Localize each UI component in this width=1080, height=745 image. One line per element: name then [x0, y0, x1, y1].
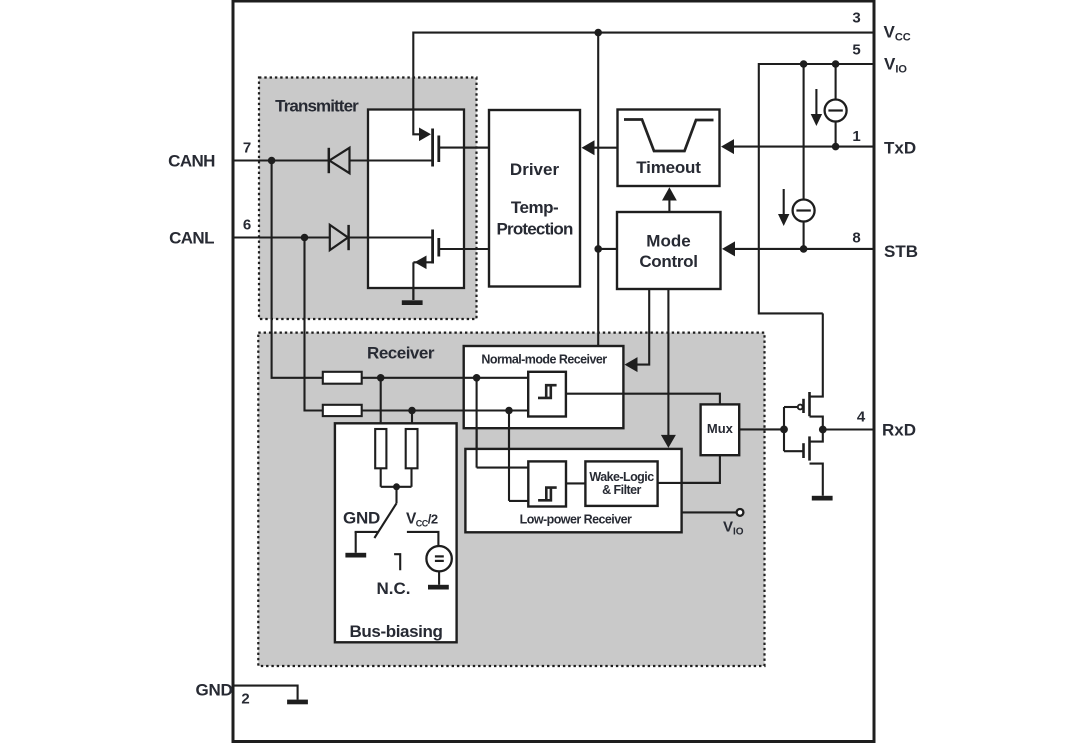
svg-text:RxD: RxD	[882, 421, 916, 440]
svg-text:Normal-mode Receiver: Normal-mode Receiver	[481, 353, 607, 367]
svg-text:2: 2	[241, 690, 249, 707]
svg-text:Transmitter: Transmitter	[275, 97, 359, 116]
svg-text:5: 5	[852, 41, 860, 58]
svg-text:Bus-biasing: Bus-biasing	[350, 622, 443, 641]
svg-text:3: 3	[852, 9, 860, 26]
svg-text:CANH: CANH	[168, 152, 215, 171]
svg-text:N.C.: N.C.	[377, 579, 411, 598]
svg-text:Low-power Receiver: Low-power Receiver	[520, 512, 632, 526]
svg-text:GND: GND	[196, 681, 233, 700]
svg-text:VIO: VIO	[884, 55, 907, 76]
svg-text:Wake-Logic: Wake-Logic	[589, 470, 654, 484]
svg-text:VCC: VCC	[884, 23, 911, 44]
svg-text:STB: STB	[884, 242, 918, 261]
svg-text:& Filter: & Filter	[602, 483, 641, 497]
svg-text:Timeout: Timeout	[636, 158, 701, 177]
svg-text:Receiver: Receiver	[367, 344, 435, 363]
svg-text:4: 4	[857, 408, 866, 425]
svg-text:Mux: Mux	[707, 421, 734, 436]
svg-text:7: 7	[243, 139, 251, 156]
svg-text:1: 1	[852, 128, 860, 145]
svg-text:Temp-: Temp-	[511, 198, 558, 217]
svg-text:CANL: CANL	[169, 229, 214, 248]
svg-text:6: 6	[243, 216, 251, 233]
svg-text:Control: Control	[639, 252, 697, 271]
svg-text:Driver: Driver	[510, 160, 560, 179]
svg-text:Mode: Mode	[646, 232, 690, 251]
svg-text:GND: GND	[343, 509, 380, 528]
svg-text:8: 8	[852, 229, 860, 246]
svg-text:Protection: Protection	[496, 220, 572, 239]
svg-text:TxD: TxD	[884, 139, 916, 158]
